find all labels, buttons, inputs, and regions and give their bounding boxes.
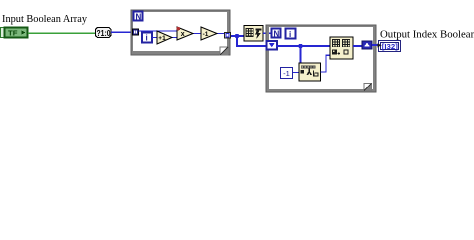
svg-text:N: N — [136, 13, 142, 22]
svg-text:[I32]: [I32] — [382, 42, 399, 51]
svg-text:i: i — [289, 30, 291, 39]
svg-text:TF: TF — [8, 30, 18, 37]
svg-text:N: N — [274, 30, 280, 39]
svg-text:-1: -1 — [283, 69, 290, 78]
svg-text:?1:0: ?1:0 — [97, 29, 111, 38]
svg-text:-1: -1 — [203, 31, 209, 38]
svg-text:x: x — [181, 31, 185, 38]
svg-text:i: i — [146, 34, 148, 43]
svg-text:Input Boolean Array: Input Boolean Array — [2, 13, 87, 25]
svg-text:Output Index Boolean: Output Index Boolean — [380, 29, 474, 41]
svg-text:+1: +1 — [158, 35, 166, 42]
